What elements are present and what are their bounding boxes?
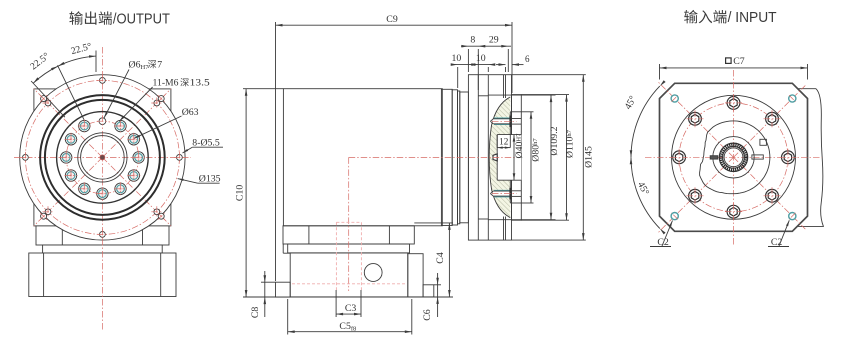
svg-text:C9: C9 bbox=[386, 14, 398, 25]
svg-text:/ INPUT: / INPUT bbox=[728, 9, 777, 26]
svg-text:Ø145: Ø145 bbox=[584, 146, 595, 168]
svg-text:C8: C8 bbox=[250, 307, 261, 319]
svg-text:C4: C4 bbox=[435, 252, 446, 264]
svg-text:6: 6 bbox=[525, 54, 530, 64]
svg-text:C3: C3 bbox=[345, 303, 357, 314]
svg-text:C7: C7 bbox=[733, 56, 745, 67]
svg-text:8: 8 bbox=[470, 35, 475, 46]
svg-text:10: 10 bbox=[452, 53, 462, 64]
svg-text:29: 29 bbox=[489, 35, 499, 46]
svg-text:13.5: 13.5 bbox=[190, 78, 210, 89]
svg-text:10: 10 bbox=[476, 53, 486, 64]
svg-text:Ø109.2: Ø109.2 bbox=[549, 126, 560, 155]
svg-text:C6: C6 bbox=[422, 309, 433, 321]
svg-text:12: 12 bbox=[499, 137, 509, 147]
svg-text:C10: C10 bbox=[235, 185, 246, 201]
svg-text:/OUTPUT: /OUTPUT bbox=[113, 11, 170, 28]
svg-text:Ø63: Ø63 bbox=[182, 107, 199, 118]
svg-text:7: 7 bbox=[157, 60, 162, 71]
svg-text:11-M6: 11-M6 bbox=[153, 78, 179, 89]
